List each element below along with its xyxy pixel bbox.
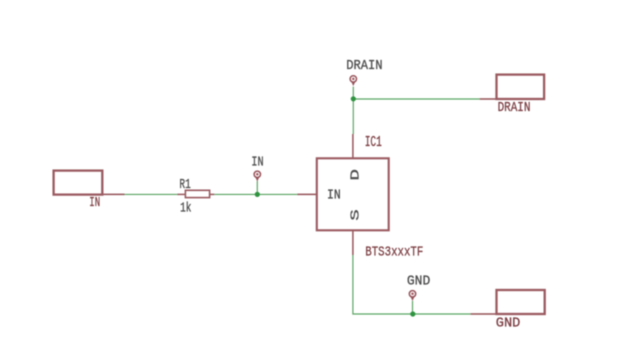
svg-text:1k: 1k — [180, 202, 191, 217]
svg-text:BTS3xxxTF: BTS3xxxTF — [365, 244, 423, 260]
svg-text:DRAIN: DRAIN — [346, 59, 382, 74]
svg-text:GND: GND — [496, 317, 521, 332]
svg-text:DRAIN: DRAIN — [498, 101, 531, 116]
svg-text:IC1: IC1 — [365, 135, 382, 151]
svg-text:D: D — [348, 169, 362, 181]
svg-text:GND: GND — [407, 275, 430, 290]
svg-text:S: S — [348, 209, 362, 221]
svg-text:R1: R1 — [179, 178, 190, 193]
svg-text:IN: IN — [89, 196, 100, 211]
svg-text:IN: IN — [251, 156, 263, 171]
svg-text:IN: IN — [327, 188, 341, 203]
